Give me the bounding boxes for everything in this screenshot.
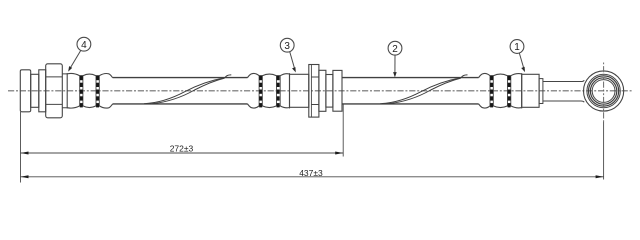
banjo eye outer circle (584, 71, 624, 111)
fitting 3: hex chamfer line (310, 65, 312, 118)
crimp rib marks groove 6 (508, 76, 511, 108)
fitting 1: step washer (539, 79, 543, 104)
fitting 1: crimp sleeve S1 (479, 73, 522, 108)
leader 2 (394, 55, 396, 75)
fitting 3: body (290, 74, 309, 107)
fitting 4: hex nut (46, 64, 63, 118)
arrow 437 left (21, 175, 29, 178)
dimension line 437 (21, 176, 604, 178)
arrow 272 right (335, 152, 343, 155)
fitting 3: flange washer (333, 70, 342, 111)
neck between hex and sleeve (62, 74, 67, 108)
main horizontal centerline (8, 90, 633, 92)
svg-text:3: 3 (284, 41, 290, 52)
banjo eye seal ring outer (589, 76, 619, 106)
hose section 1 (113, 78, 248, 104)
crimp rib marks groove 5 (490, 76, 493, 108)
banjo eye second circle (587, 74, 620, 107)
extension line left (20, 112, 22, 183)
leader 4 (70, 50, 81, 69)
leader 1 (519, 53, 524, 69)
fitting 1: body (522, 74, 539, 107)
leader 3 arrowhead (292, 67, 296, 72)
leader 2 arrowhead (393, 72, 397, 77)
fitting 3: neck (326, 75, 333, 108)
crimp sleeve S4 outline (67, 73, 112, 108)
hose section 2 (342, 78, 479, 104)
svg-text:2: 2 (392, 44, 398, 55)
fitting 1: tube to eye (543, 80, 584, 102)
fitting 3: hex nut (309, 65, 319, 118)
callout circle 4 (77, 37, 91, 51)
fitting 3: hex facet lines (311, 77, 319, 105)
callout circle 1 (510, 40, 524, 54)
callout circle 2 (388, 41, 402, 55)
hex facet line bottom (46, 103, 63, 105)
crimp rib marks groove 1 (80, 76, 83, 108)
svg-text:4: 4 (81, 40, 87, 51)
extension line middle (342, 105, 344, 157)
svg-text:437±3: 437±3 (299, 168, 323, 178)
callout circle 3 (280, 38, 294, 52)
svg-text:272±3: 272±3 (170, 143, 194, 153)
fitting 4: washer (39, 70, 46, 112)
svg-text:1: 1 (514, 42, 520, 53)
hose stripe 1 (144, 75, 231, 104)
leader 3 (290, 52, 295, 70)
leader 4 arrowhead (68, 66, 72, 72)
hex facet line top (46, 76, 63, 78)
banjo eye bore (592, 80, 615, 103)
arrow 272 left (21, 152, 29, 155)
crimp rib marks groove 4 (277, 76, 280, 108)
fitting 4: step groove (31, 74, 39, 107)
fitting 3: washer (319, 70, 326, 111)
banjo eye seal ring inner (590, 78, 616, 104)
crimp rib marks groove 3 (259, 76, 262, 108)
dimension line 272 (21, 152, 344, 154)
crimp rib marks groove 2 (96, 76, 99, 108)
extension line right (603, 122, 605, 180)
fitting 4: end flange (20, 70, 30, 112)
fitting 3: crimp sleeve S3 (248, 73, 290, 108)
arrow 437 right (596, 175, 604, 178)
leader 1 arrowhead (521, 67, 525, 72)
hose stripe 2 (380, 75, 467, 104)
eye vertical centerline (603, 63, 605, 123)
